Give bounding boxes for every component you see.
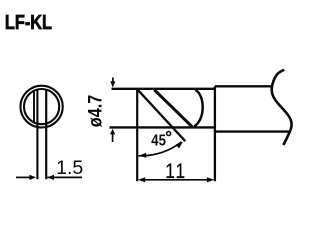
phi4.7 top arrowhead (points down at top edge)	[110, 81, 115, 87]
shaft bottom line	[215, 130, 290, 132]
dimension 1.5 right leader line	[47, 176, 82, 178]
hatch diagonal on cut face	[154, 90, 192, 127]
svg-text:LF-KL: LF-KL	[5, 10, 52, 33]
svg-text:1: 1	[176, 159, 186, 183]
phi4.7 bottom arrowhead (points up at bottom edge)	[110, 129, 115, 135]
degree symbol of 45	[167, 132, 171, 136]
dimension 11 left arrowhead	[138, 177, 145, 182]
side view top edge (with left extension)	[112, 88, 216, 90]
dimension 11 right arrowhead	[207, 177, 214, 182]
blade shoulder line	[33, 91, 35, 124]
svg-text:1.5: 1.5	[56, 157, 83, 179]
svg-text:1: 1	[165, 159, 175, 183]
front view outer circle	[20, 86, 62, 128]
side view front vertical edge + extension line to 11 dimension	[136, 89, 138, 182]
angle arc left arrowhead	[138, 153, 146, 158]
dimension 1.5 right arrowhead	[47, 175, 54, 180]
knife bevel diagonal (extended below bottom edge)	[137, 89, 185, 141]
dimension 1.5 left arrowhead	[29, 175, 36, 180]
shaft break S-curve	[272, 70, 292, 145]
shaft step vertical + extension line to 11 dimension	[214, 86, 216, 181]
dimension 1.5 left leader line	[16, 176, 30, 178]
side view bottom edge (with left extension)	[110, 126, 216, 128]
shaft top line	[215, 85, 272, 87]
angle arc right arrowhead	[176, 142, 183, 149]
blade edge line right (extension to dimension)	[45, 90, 47, 180]
svg-text:45: 45	[151, 132, 166, 149]
svg-text:ø4.7: ø4.7	[84, 95, 106, 127]
phi4.7 bottom arrow stem	[112, 134, 114, 142]
blade edge line left (extension to dimension)	[36, 90, 38, 180]
front view inner circle	[24, 89, 59, 124]
cut face elliptical arc	[194, 90, 203, 127]
phi4.7 top arrow stem	[112, 78, 114, 83]
dimension 11 line	[141, 179, 212, 181]
45 degree angle arc	[139, 142, 182, 156]
